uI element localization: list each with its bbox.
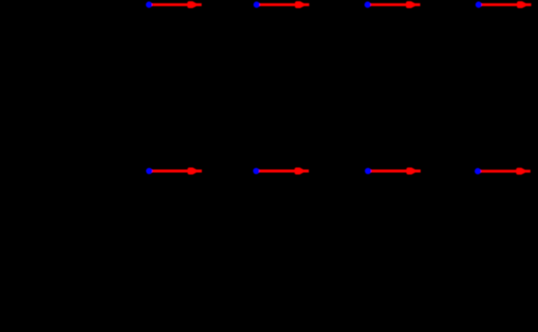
vector arrow V8 (row 2, col 4)	[475, 168, 531, 175]
vector arrow V5 (row 2, col 1)	[146, 168, 202, 175]
vector arrow V7 (row 2, col 3)	[365, 168, 421, 175]
node point P5	[146, 168, 152, 174]
arrowhead V2	[295, 1, 304, 8]
wire shaft V8	[478, 170, 531, 173]
vector arrow V6 (row 2, col 2)	[253, 168, 309, 175]
wire shaft V7	[368, 170, 421, 173]
node point P1	[146, 2, 152, 8]
wire shaft V4	[479, 3, 532, 6]
vector arrow V4 (row 1, col 4)	[475, 1, 531, 8]
wire shaft V2	[257, 3, 310, 6]
node point P3	[364, 2, 370, 8]
arrowhead V3	[406, 1, 415, 8]
wire shaft V1	[149, 3, 202, 6]
arrowhead V8	[516, 168, 525, 175]
arrowhead V7	[406, 168, 415, 175]
wire shaft V3	[368, 3, 421, 6]
node point P8	[475, 168, 481, 174]
wire shaft V5	[149, 170, 202, 173]
arrowhead V6	[295, 168, 304, 175]
node point P2	[253, 2, 259, 8]
arrowhead V4	[517, 1, 526, 8]
node point P6	[253, 168, 259, 174]
vector arrow V3 (row 1, col 3)	[364, 1, 420, 8]
arrowhead V5	[188, 168, 197, 175]
node point P4	[475, 2, 481, 8]
wire shaft V6	[256, 170, 309, 173]
arrowhead V1	[187, 1, 196, 8]
node point P7	[365, 168, 371, 174]
vector arrow V2 (row 1, col 2)	[253, 1, 309, 8]
vector arrow V1 (row 1, col 1)	[146, 1, 202, 8]
